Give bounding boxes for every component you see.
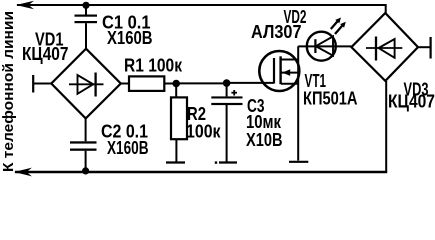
diode inside VD3 bbox=[366, 37, 402, 61]
wire VT1 right vertical (drain up / source down) bbox=[297, 46, 299, 160]
svg-text:100к: 100к bbox=[186, 122, 221, 142]
node junction top (C1/top rail) bbox=[82, 2, 89, 9]
node junction C3/gate bbox=[223, 79, 231, 87]
wire R2 bottom lead bbox=[175, 139, 177, 161]
svg-text:КЦ407: КЦ407 bbox=[22, 44, 69, 64]
wire node to C3 node bbox=[176, 82, 227, 84]
wire gate lead bbox=[227, 82, 275, 84]
transistor VT1 body circle bbox=[259, 51, 299, 91]
terminal bar VD1 left bbox=[32, 75, 34, 93]
terminal bar VT1 source bottom bbox=[289, 161, 308, 163]
wire R1 to node bbox=[164, 83, 176, 85]
wire C3 bottom lead bbox=[226, 105, 228, 162]
svg-text:КЦ407: КЦ407 bbox=[388, 92, 435, 112]
svg-text:R1 100к: R1 100к bbox=[124, 56, 183, 76]
wire VD3 right lead bbox=[418, 46, 430, 48]
node junction R1/R2 bbox=[172, 80, 180, 88]
node line2 arrow (bottom left) bbox=[14, 168, 32, 177]
svg-text:К телефонной линии: К телефонной линии bbox=[0, 11, 17, 172]
transistor VT1 source stub bbox=[281, 83, 298, 85]
transistor VT1 channel bar bbox=[279, 56, 281, 84]
wire drain corner to LED and through to VD3 bbox=[298, 45, 351, 47]
LED VD2 cathode bar bbox=[314, 39, 316, 53]
wire VD1 right vertex to R1 bbox=[121, 83, 129, 85]
capacitor C3 bbox=[211, 96, 242, 105]
capacitor C3 polarity plus bbox=[231, 90, 237, 96]
resistor R2 bbox=[171, 97, 187, 139]
terminal bar C3 bottom bbox=[219, 161, 237, 163]
LED VD2 triangle bbox=[316, 36, 333, 55]
svg-text:Х160В: Х160В bbox=[107, 138, 149, 158]
wire C1 to VD1 top vertex bbox=[85, 23, 87, 49]
transistor VT1 gate bar bbox=[273, 58, 275, 84]
wire C1 top lead bbox=[85, 5, 87, 15]
LED VD2 light arrow 2 bbox=[335, 22, 346, 34]
wire VD3 bottom to rail bbox=[385, 81, 387, 172]
svg-text:Х10В: Х10В bbox=[246, 130, 283, 150]
wire C3 top lead bbox=[226, 83, 228, 96]
transistor VT1 substrate stub with arrow bbox=[281, 69, 298, 76]
wire R2 top lead bbox=[175, 84, 177, 98]
wire top rail bbox=[17, 5, 386, 13]
node junction bottom (C2/bottom rail) bbox=[82, 167, 89, 174]
svg-text:АЛ307: АЛ307 bbox=[251, 22, 302, 42]
wire VD1 left lead bbox=[34, 83, 52, 85]
resistor R1 bbox=[129, 76, 164, 91]
wire bottom rail bbox=[15, 171, 387, 174]
bridge VD1 diamond bbox=[51, 49, 121, 119]
capacitor C2 bbox=[70, 141, 97, 151]
svg-text:Х160В: Х160В bbox=[107, 28, 153, 48]
diode inside VD1 bbox=[69, 73, 104, 97]
terminal bar VD3 right bbox=[430, 37, 432, 59]
bridge VD3 diamond bbox=[351, 13, 418, 81]
terminal bar R2 bottom bbox=[166, 161, 185, 163]
LED VD2 circle bbox=[307, 32, 336, 61]
wire C2 to bottom rail bbox=[85, 151, 87, 172]
node line1 arrow (top left) bbox=[16, 1, 34, 9]
svg-text:КП501А: КП501А bbox=[303, 88, 358, 108]
LED VD2 light arrow 1 bbox=[331, 18, 341, 30]
transistor VT1 drain stub bbox=[281, 59, 298, 61]
stray mark near C3 bar bbox=[215, 161, 217, 163]
capacitor C1 bbox=[75, 15, 98, 24]
wire VD1 bottom to C2 bbox=[85, 118, 87, 141]
